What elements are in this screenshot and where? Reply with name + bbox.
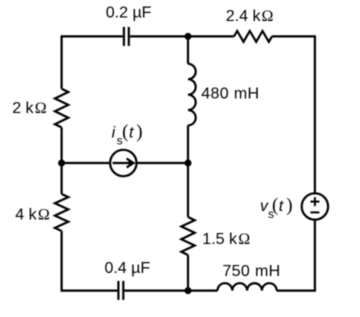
wire current source right <box>137 162 189 164</box>
wire bottom node to inductor 750mH <box>188 290 218 292</box>
wire left middle <box>60 127 62 194</box>
voltage source VS circle <box>302 193 328 219</box>
svg-text:750 mH: 750 mH <box>222 263 280 280</box>
resistor R 2.4 kOhm <box>234 31 272 42</box>
wire top-right corner <box>272 36 315 193</box>
current source arrow <box>113 159 134 168</box>
svg-text:2.4 kΩ: 2.4 kΩ <box>226 8 274 25</box>
wire cap to top node <box>130 35 188 37</box>
wire top-left segment <box>62 36 123 88</box>
voltage source plus sign <box>310 197 319 212</box>
resistor R 1.5 kOhm <box>181 217 194 255</box>
resistor R 2 kOhm <box>55 89 68 128</box>
svg-text:0.2 µF: 0.2 µF <box>106 4 152 21</box>
current source IS circle <box>110 150 136 176</box>
svg-text:4 kΩ: 4 kΩ <box>15 207 50 224</box>
wire middle branch top <box>187 36 189 63</box>
svg-text:1.5 kΩ: 1.5 kΩ <box>202 231 250 248</box>
svg-text:is(t): is(t) <box>112 122 143 148</box>
svg-text:vs(t): vs(t) <box>260 195 293 221</box>
capacitor C2 0.4 uF plates <box>118 281 123 300</box>
node left junction <box>58 160 65 167</box>
voltage source minus sign <box>310 211 319 213</box>
wire current source left <box>62 162 111 164</box>
svg-text:0.4 µF: 0.4 µF <box>104 260 150 277</box>
wire top node to resistor 2.4k <box>188 35 234 37</box>
svg-text:480 mH: 480 mH <box>201 86 259 103</box>
wire middle branch bottom <box>187 255 189 291</box>
inductor L 750 mH <box>218 283 277 290</box>
wire cap2 to bottom node <box>124 290 188 292</box>
inductor L 480 mH <box>188 64 196 126</box>
node bottom junction <box>185 287 192 294</box>
node top junction <box>185 33 192 40</box>
wire left bottom <box>62 231 118 291</box>
wire middle branch center <box>187 125 189 217</box>
svg-text:2 kΩ: 2 kΩ <box>12 100 47 117</box>
wire bottom-right corner <box>277 220 315 291</box>
node middle junction <box>185 160 192 167</box>
capacitor C1 0.2 uF plates <box>124 27 129 46</box>
resistor R 4 kOhm <box>55 194 68 231</box>
